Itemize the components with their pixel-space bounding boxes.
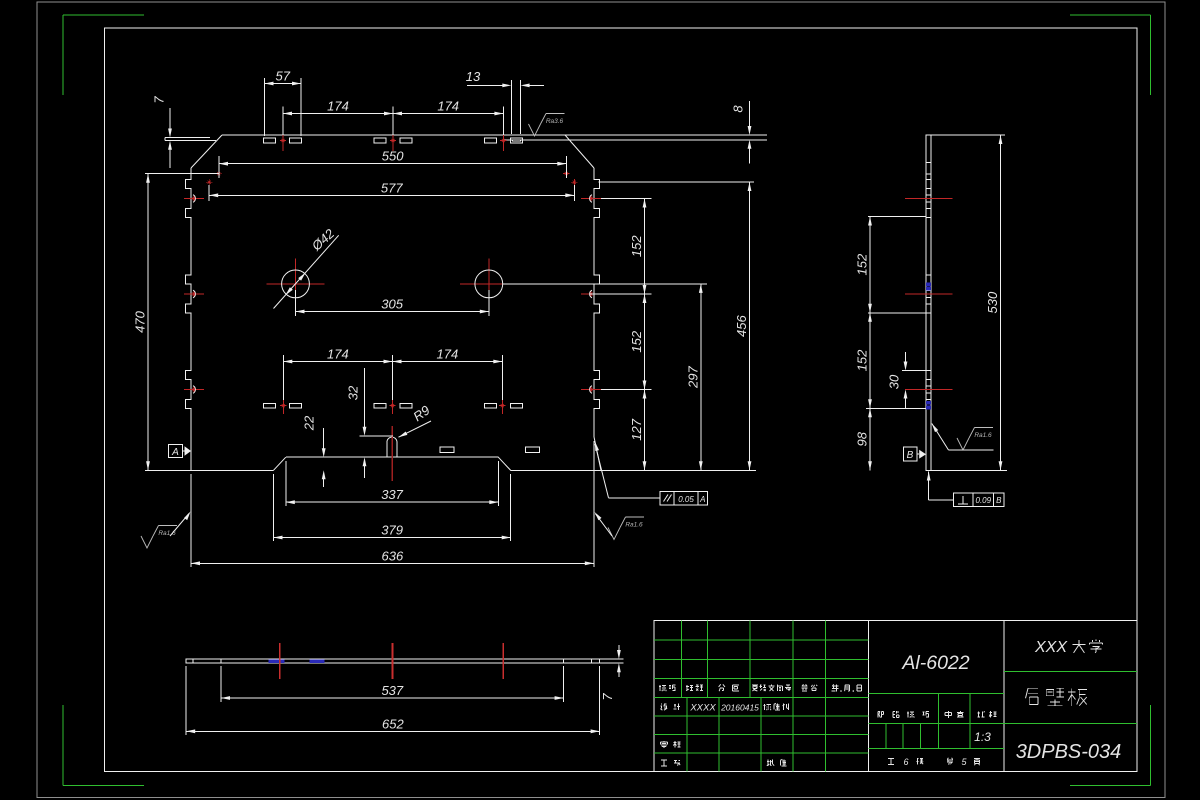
dimension 470 bbox=[133, 174, 220, 471]
side view red tab marks bbox=[905, 199, 953, 390]
front view top flange lines bbox=[165, 135, 767, 141]
label genggaiwenjianhao bbox=[752, 685, 791, 692]
label shenhe bbox=[660, 741, 680, 748]
svg-text:337: 337 bbox=[381, 487, 403, 502]
svg-text:B: B bbox=[996, 496, 1002, 505]
parallelism frame 0.05 A bbox=[595, 442, 708, 505]
front view right edge slot cutouts bbox=[590, 195, 592, 394]
hole right (diam 42) bbox=[475, 270, 503, 298]
dimension 577 bbox=[209, 180, 574, 201]
svg-text:30: 30 bbox=[887, 374, 902, 389]
dimension 32 bbox=[346, 368, 394, 478]
dimension 152 right-upper bbox=[629, 199, 646, 295]
dimension 652 bbox=[186, 666, 599, 735]
hole left (diam 42) bbox=[282, 270, 310, 298]
front view R9 center slot bbox=[387, 437, 397, 457]
corner mark top-right bbox=[1070, 15, 1151, 95]
side surface mark bbox=[932, 424, 994, 451]
svg-text:22: 22 bbox=[302, 415, 317, 431]
svg-text:20160415: 20160415 bbox=[720, 703, 759, 713]
svg-text:174: 174 bbox=[327, 99, 349, 114]
hole right centerline bbox=[460, 259, 518, 309]
dimension 537 bbox=[221, 666, 564, 702]
dimension R9 leader bbox=[399, 402, 433, 437]
label chushu bbox=[686, 685, 703, 691]
svg-text:537: 537 bbox=[381, 683, 403, 698]
svg-text:3DPBS-034: 3DPBS-034 bbox=[1016, 741, 1122, 763]
front view left edge slot cutouts bbox=[193, 195, 195, 394]
perpendicularity frame 0.09 B bbox=[927, 472, 1004, 507]
label biaoji bbox=[659, 685, 676, 691]
red ticks right edge tabs bbox=[581, 196, 601, 393]
front view right chamfer bbox=[565, 135, 594, 168]
dimension 174 bottom-left bbox=[283, 347, 392, 401]
dimension 152 right-lower bbox=[629, 294, 646, 390]
text Al-6022 bbox=[901, 652, 969, 674]
hole left centerline bbox=[267, 259, 325, 309]
title block main separators bbox=[869, 621, 1005, 772]
label di 5 ye bbox=[947, 757, 980, 767]
red corner marks top-right bbox=[563, 170, 577, 185]
svg-text:305: 305 bbox=[381, 297, 403, 312]
svg-text:456: 456 bbox=[734, 315, 749, 337]
dimension 7 left bbox=[152, 96, 172, 168]
front view bottom edge with center notch bbox=[191, 457, 601, 470]
front view left edge with tabs bbox=[186, 168, 192, 470]
label biaozhunhua bbox=[763, 703, 789, 710]
red center marks top slots bbox=[280, 130, 507, 151]
dimension phi42 leader bbox=[274, 225, 339, 308]
svg-text:Ra1.6: Ra1.6 bbox=[974, 432, 992, 439]
surface mark bottom-right bbox=[595, 512, 645, 540]
svg-text:57: 57 bbox=[276, 69, 291, 84]
dimension 456 bbox=[734, 182, 751, 470]
label zhongliang bbox=[945, 711, 963, 718]
red ticks left edge tabs bbox=[184, 196, 204, 393]
dimension 530 bbox=[985, 135, 1002, 470]
dimension 379 bbox=[274, 474, 511, 541]
dimension 22 bbox=[302, 415, 326, 487]
svg-text:636: 636 bbox=[382, 548, 404, 563]
dimension 152 side-lower bbox=[855, 313, 872, 409]
svg-text:32: 32 bbox=[346, 385, 361, 400]
label bili bbox=[977, 711, 996, 718]
red corner marks top-left bbox=[206, 171, 222, 186]
datum A bbox=[169, 445, 192, 459]
bottom view red marks bbox=[280, 643, 503, 679]
svg-text:174: 174 bbox=[327, 347, 349, 362]
text 1:3 bbox=[974, 730, 991, 744]
dimension 7 bottom bbox=[600, 645, 624, 701]
svg-text:Ra1.6: Ra1.6 bbox=[625, 522, 643, 529]
title block right grid bbox=[1004, 671, 1137, 723]
svg-text:Al-6022: Al-6022 bbox=[901, 652, 969, 674]
front view right edge bottom slant bbox=[594, 437, 601, 470]
dimension 297 bbox=[685, 284, 702, 470]
label gongyi bbox=[661, 760, 680, 766]
svg-text:XXX: XXX bbox=[1034, 639, 1068, 656]
svg-text:152: 152 bbox=[629, 330, 644, 352]
datum B bbox=[904, 447, 927, 461]
surface mark top bbox=[529, 114, 565, 137]
side view blue dashes bbox=[927, 283, 931, 409]
svg-text:152: 152 bbox=[629, 235, 644, 257]
svg-text:A: A bbox=[699, 495, 705, 504]
bottom view segment ticks bbox=[193, 659, 591, 663]
svg-text:13: 13 bbox=[466, 69, 481, 84]
svg-text:652: 652 bbox=[382, 716, 404, 731]
dimension 30 bbox=[887, 352, 908, 408]
svg-text:127: 127 bbox=[629, 418, 644, 440]
surface mark bottom-left bbox=[141, 512, 191, 549]
svg-text:Ra1.6: Ra1.6 bbox=[158, 530, 176, 537]
label gong 6 zhang bbox=[888, 757, 923, 767]
label nianyueri bbox=[832, 684, 862, 692]
dimension 98 bbox=[855, 408, 872, 470]
svg-text:7: 7 bbox=[600, 693, 615, 701]
label houbiban (part name) bbox=[1026, 688, 1087, 706]
svg-text:550: 550 bbox=[382, 149, 404, 164]
text 3DPBS-034 bbox=[1016, 741, 1122, 763]
text XXX university bbox=[1034, 639, 1102, 656]
dimension 13 bbox=[466, 69, 544, 134]
svg-text:0.09: 0.09 bbox=[976, 496, 992, 505]
svg-text:152: 152 bbox=[855, 253, 870, 275]
dimension 636 bbox=[191, 441, 594, 567]
svg-text:A: A bbox=[171, 447, 179, 458]
dimension 57 bbox=[265, 69, 302, 137]
front view left chamfer bbox=[191, 135, 222, 168]
svg-text:6: 6 bbox=[903, 757, 908, 767]
svg-text:98: 98 bbox=[855, 431, 870, 446]
front view right edge with tabs bbox=[594, 168, 600, 437]
corner mark bottom-right bbox=[1070, 705, 1151, 786]
text 20160415 bbox=[720, 703, 759, 713]
corner mark top-left bbox=[63, 15, 144, 95]
front view lower slot pair bbox=[440, 447, 539, 453]
dimension 337 bbox=[286, 461, 499, 506]
svg-text:297: 297 bbox=[685, 365, 700, 388]
front view bottom slot row bbox=[264, 403, 523, 408]
svg-text:152: 152 bbox=[855, 349, 870, 371]
label sheji bbox=[660, 703, 680, 710]
label pizhun bbox=[767, 759, 787, 766]
label jieduanbiaoji bbox=[878, 711, 929, 718]
corner mark bottom-left bbox=[63, 705, 144, 786]
dimension 8 right bbox=[731, 101, 752, 164]
svg-text:530: 530 bbox=[985, 291, 1000, 313]
text XXXX bbox=[689, 703, 716, 714]
svg-text:0.05: 0.05 bbox=[678, 495, 694, 504]
title block left table grid bbox=[654, 621, 869, 772]
svg-text:577: 577 bbox=[381, 180, 403, 195]
svg-text:379: 379 bbox=[381, 523, 403, 538]
side view segment ticks bbox=[926, 163, 931, 409]
svg-text:174: 174 bbox=[437, 99, 459, 114]
svg-text:1:3: 1:3 bbox=[974, 730, 991, 744]
label qianming bbox=[801, 684, 817, 691]
bottom view strip outline bbox=[186, 659, 599, 663]
red center marks bottom slots bbox=[280, 396, 505, 415]
svg-text:470: 470 bbox=[133, 310, 148, 332]
label fenqu bbox=[719, 684, 739, 691]
red centerline R9 slot bbox=[391, 426, 393, 481]
svg-text:7: 7 bbox=[152, 96, 167, 104]
dimension 305 bbox=[296, 290, 489, 316]
dimension 152 side-upper bbox=[855, 217, 872, 313]
dimension 127 bbox=[629, 390, 646, 471]
extension lines right side bbox=[503, 135, 767, 470]
svg-text:XXXX: XXXX bbox=[689, 703, 716, 714]
svg-text:B: B bbox=[907, 450, 914, 461]
side view strip outline bbox=[926, 135, 931, 470]
title block outline bbox=[654, 621, 1137, 772]
svg-text:8: 8 bbox=[731, 105, 746, 113]
dimension 550 bbox=[219, 149, 566, 178]
dimension 174 top-left bbox=[283, 99, 393, 136]
dimension 174 bottom-right bbox=[393, 347, 503, 401]
side view extension lines bbox=[866, 135, 1007, 470]
dimension 174 top-right bbox=[393, 99, 503, 136]
bottom view blue dashes bbox=[269, 660, 324, 663]
title block middle grid bbox=[869, 694, 1005, 749]
front view top slot row bbox=[264, 138, 523, 143]
svg-text:Ra3.6: Ra3.6 bbox=[546, 118, 564, 125]
svg-text:174: 174 bbox=[437, 347, 459, 362]
